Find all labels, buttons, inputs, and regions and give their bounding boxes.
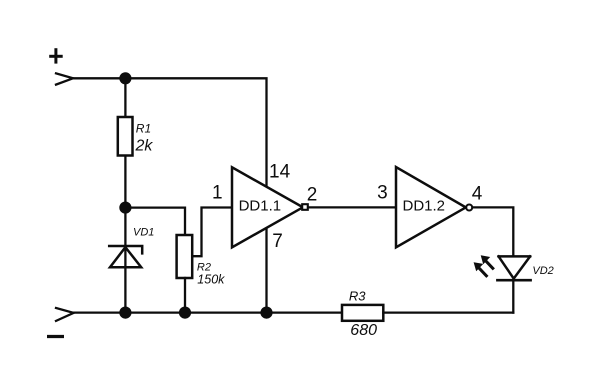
zener diode VD1	[109, 246, 142, 267]
op-amp U1 triangle DD1.1	[232, 167, 303, 247]
svg-text:680: 680	[350, 322, 377, 339]
wire left branch vertical	[124, 78, 126, 312]
op-amp U2 triangle DD1.2	[396, 167, 466, 247]
wire bottom rail left	[74, 311, 342, 313]
junction dot rail 2	[179, 307, 191, 319]
wire DD1.2 out to LED	[473, 207, 513, 256]
LED arrow 1	[479, 268, 486, 276]
svg-text:4: 4	[472, 184, 483, 205]
junction dot rail 3	[260, 307, 272, 319]
LED arrow head 2	[481, 255, 491, 264]
wire bottom rail right	[383, 311, 513, 313]
wire DD1.1 out to DD1.2 in	[308, 206, 396, 208]
svg-text:2k: 2k	[135, 138, 154, 155]
svg-text:2: 2	[307, 185, 318, 206]
svg-text:R2: R2	[197, 262, 211, 274]
svg-text:R3: R3	[349, 289, 366, 304]
svg-text:R1: R1	[136, 121, 151, 135]
wire node A to R2	[125, 208, 185, 235]
input chevron bottom	[56, 308, 74, 321]
inverter bubble DD1.1	[302, 204, 308, 210]
wire R2 bottom	[184, 278, 186, 313]
LED arrow head 1	[474, 262, 484, 271]
svg-text:14: 14	[269, 162, 291, 183]
plus terminal symbol	[49, 48, 63, 63]
junction dot top	[119, 72, 131, 84]
resistor R2	[177, 235, 193, 278]
wire LED to rail	[512, 280, 514, 312]
wire pin 1 of DD1.1	[192, 208, 232, 257]
junction dot rail 1	[119, 307, 131, 319]
svg-text:DD1.2: DD1.2	[403, 198, 446, 215]
svg-text:1: 1	[212, 183, 223, 204]
svg-text:150k: 150k	[197, 273, 225, 287]
svg-text:3: 3	[377, 183, 388, 204]
LED arrow 2	[486, 261, 493, 268]
svg-text:7: 7	[272, 231, 283, 252]
svg-text:VD1: VD1	[133, 227, 154, 239]
junction node A dot	[119, 202, 131, 214]
LED VD2	[497, 256, 530, 280]
svg-text:DD1.1: DD1.1	[239, 197, 282, 214]
minus terminal symbol	[47, 335, 64, 338]
inverter bubble DD1.2	[466, 205, 472, 211]
wire top rail	[73, 78, 267, 312]
resistor R1	[118, 117, 133, 156]
input chevron top	[56, 73, 73, 84]
resistor R3	[342, 305, 383, 321]
svg-text:VD2: VD2	[532, 265, 553, 277]
